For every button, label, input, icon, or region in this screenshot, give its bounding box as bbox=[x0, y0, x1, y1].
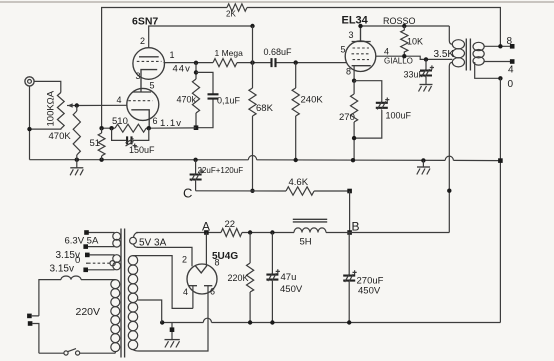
potentiometer 100K A bbox=[46, 90, 77, 129]
EL34 grids dashed bbox=[352, 48, 371, 60]
wire cathode row 1.1v bbox=[99, 126, 196, 130]
resistor 10K bbox=[401, 26, 423, 56]
svg-text:100KΩA: 100KΩA bbox=[46, 90, 57, 126]
V1b plate bar pin5 bbox=[133, 91, 151, 93]
svg-text:3.15v: 3.15v bbox=[50, 264, 74, 275]
wire HV bottom to pin6 bbox=[133, 350, 139, 351]
V1a plate bar bbox=[139, 56, 159, 58]
svg-text:0.68uF: 0.68uF bbox=[264, 47, 293, 57]
svg-text:1 Mega: 1 Mega bbox=[215, 48, 244, 58]
svg-text:2: 2 bbox=[140, 36, 145, 46]
input jack J1 bbox=[25, 77, 61, 129]
wire EL34 cathode node bbox=[352, 79, 382, 161]
op V1a triode circle bbox=[133, 48, 165, 80]
V1a grid dashed bbox=[137, 60, 162, 62]
resistor 68K bbox=[249, 88, 274, 116]
svg-text:270: 270 bbox=[339, 112, 355, 123]
svg-text:22uF+120uF: 22uF+120uF bbox=[198, 166, 244, 175]
svg-text:4: 4 bbox=[508, 65, 514, 76]
5U4G filament bbox=[195, 266, 207, 273]
EL34 plate bar pin3 bbox=[352, 26, 371, 42]
resistor 51 bbox=[90, 128, 106, 160]
svg-text:0,1uF: 0,1uF bbox=[217, 96, 241, 106]
svg-text:GIALLO: GIALLO bbox=[384, 57, 413, 66]
resistor 240K bbox=[292, 88, 323, 116]
wire bottom ground bus bbox=[160, 318, 500, 324]
svg-text:4: 4 bbox=[117, 95, 122, 105]
svg-text:51: 51 bbox=[90, 138, 101, 149]
V1a cathode bar pin3 bbox=[141, 70, 157, 92]
capacitor 150uF parallel loop bbox=[112, 128, 155, 155]
svg-text:5: 5 bbox=[341, 45, 346, 55]
wire GIALLO screen line bbox=[376, 54, 453, 66]
resistor 470k bbox=[177, 79, 200, 113]
svg-text:6.3V 5A: 6.3V 5A bbox=[65, 236, 99, 247]
transformer T1 5V winding bbox=[130, 233, 167, 249]
V1b cathode bar pin6 bbox=[131, 110, 149, 128]
op 5U4G rectifier circle bbox=[187, 264, 217, 294]
wire 5U4G pin2 to 5V winding bbox=[137, 247, 192, 266]
svg-text:470k: 470k bbox=[177, 95, 197, 105]
wire grid V1b input bbox=[75, 103, 127, 107]
resistor R-feedback 2K bbox=[226, 4, 247, 19]
capacitor 270uF 450V bbox=[343, 233, 383, 323]
svg-text:2: 2 bbox=[182, 255, 187, 265]
svg-text:68K: 68K bbox=[256, 103, 274, 114]
svg-text:ROSSO: ROSSO bbox=[383, 16, 416, 26]
svg-text:0: 0 bbox=[508, 79, 514, 90]
svg-text:8: 8 bbox=[507, 36, 513, 47]
transformer T2 core bbox=[466, 39, 470, 71]
svg-text:10K: 10K bbox=[407, 37, 423, 47]
node B riser bbox=[347, 189, 359, 235]
capacitor 0.68uF bbox=[264, 47, 293, 67]
transformer T1 HV winding bbox=[128, 256, 137, 350]
5U4G plate pin6 bbox=[139, 286, 215, 351]
svg-text:470K: 470K bbox=[49, 131, 72, 142]
wire output tap 0 bbox=[475, 62, 514, 90]
svg-text:4.6K: 4.6K bbox=[289, 177, 309, 188]
capacitor 22uF+120uF bbox=[190, 160, 244, 191]
resistor 470K input bbox=[49, 106, 81, 160]
stray junction dot on B+ riser bbox=[447, 189, 451, 193]
svg-text:C: C bbox=[183, 186, 192, 201]
svg-text:8: 8 bbox=[215, 258, 220, 268]
wire V1a plate to node bbox=[149, 24, 255, 48]
wire HV center tap bbox=[138, 300, 162, 323]
svg-text:4: 4 bbox=[384, 47, 389, 57]
transformer T1 heater 6.3V winding bbox=[65, 230, 121, 249]
5U4G plate pin4 bbox=[183, 286, 197, 309]
svg-text:1.1v: 1.1v bbox=[160, 118, 182, 129]
capacitor 0.1uF bbox=[194, 72, 241, 130]
svg-text:5: 5 bbox=[150, 81, 155, 91]
wire output tap 4 bbox=[484, 59, 514, 75]
ground symbol mid-bus bbox=[417, 160, 430, 174]
wire 240K vertical branch bbox=[295, 63, 297, 160]
svg-text:450V: 450V bbox=[358, 286, 381, 297]
wire HV top to pin4 bbox=[133, 256, 193, 309]
svg-text:5H: 5H bbox=[300, 237, 312, 248]
svg-text:47u: 47u bbox=[281, 272, 297, 283]
ground below 33uF bbox=[419, 85, 433, 92]
svg-text:1: 1 bbox=[170, 50, 175, 60]
wire mains top with fuse bbox=[39, 276, 115, 316]
resistor 220K branch bbox=[228, 233, 254, 323]
svg-text:220V: 220V bbox=[76, 306, 101, 318]
wire feedback top bus bbox=[102, 8, 501, 129]
svg-text:220K: 220K bbox=[228, 273, 249, 283]
node C wire bbox=[183, 186, 350, 201]
wire ground bus bbox=[30, 129, 503, 163]
wire right side rail bbox=[499, 78, 501, 322]
svg-text:240K: 240K bbox=[301, 95, 324, 106]
capacitor 100uF bbox=[376, 98, 412, 121]
EL34 cathode bar pin8 bbox=[352, 66, 371, 81]
svg-text:3: 3 bbox=[349, 30, 354, 40]
resistor 510 bbox=[112, 116, 146, 132]
resistor 22 bbox=[221, 219, 242, 237]
svg-text:22: 22 bbox=[225, 219, 236, 230]
plug terminals bbox=[27, 314, 39, 354]
transformer T2 secondary bbox=[473, 42, 484, 65]
transformer T1 core bbox=[121, 229, 125, 358]
resistor 1 Mega bbox=[213, 48, 243, 67]
ground symbol left bbox=[70, 160, 83, 176]
wire output tap 8 bbox=[484, 36, 514, 49]
svg-text:5V 3A: 5V 3A bbox=[139, 238, 167, 249]
transformer T2 output primary 3.5K bbox=[434, 26, 465, 233]
ground symbol center-tap bbox=[165, 323, 180, 348]
svg-text:2K: 2K bbox=[226, 10, 236, 19]
svg-text:450V: 450V bbox=[280, 284, 303, 295]
svg-text:3.5K: 3.5K bbox=[434, 49, 455, 60]
transformer T1 heater 3.15v winding bbox=[50, 250, 121, 275]
svg-text:6: 6 bbox=[210, 287, 215, 297]
svg-text:3: 3 bbox=[136, 71, 141, 81]
wire 470k/0.1uF branch stub bbox=[194, 63, 198, 128]
svg-text:150uF: 150uF bbox=[129, 145, 155, 155]
svg-text:33uF: 33uF bbox=[404, 70, 425, 80]
svg-text:100uF: 100uF bbox=[386, 111, 412, 121]
wire A row bbox=[136, 220, 349, 235]
wire B to transformer riser bbox=[350, 232, 450, 234]
wire 68K vertical branch bbox=[250, 26, 254, 193]
svg-text:44v: 44v bbox=[173, 64, 191, 75]
transformer T1 220V primary winding bbox=[76, 280, 120, 352]
svg-text:0: 0 bbox=[75, 255, 80, 266]
svg-text:6: 6 bbox=[153, 116, 158, 126]
wire signal 44v node row bbox=[164, 60, 347, 65]
resistor 4.6K bbox=[286, 177, 314, 195]
wire ROSSO plate line bbox=[358, 16, 449, 28]
inductor choke 5H bbox=[293, 219, 327, 247]
svg-text:EL34: EL34 bbox=[342, 15, 369, 27]
wire pot bottom to jack sleeve bbox=[27, 127, 61, 131]
svg-text:8: 8 bbox=[346, 67, 351, 77]
V1b grid dashed bbox=[128, 100, 152, 102]
svg-text:B: B bbox=[352, 220, 360, 234]
capacitor 33uF bbox=[404, 59, 435, 84]
svg-text:510: 510 bbox=[112, 116, 128, 127]
wire 5U4G pin8 to A bbox=[206, 233, 219, 268]
resistor 270 bbox=[339, 94, 358, 123]
scan border top bbox=[0, 1, 554, 3]
wire heater 0 center tap dashed bbox=[75, 255, 115, 266]
op EL34 pentode circle bbox=[345, 41, 376, 72]
wire mains bottom with switch bbox=[39, 349, 115, 356]
capacitor 47u 450V bbox=[266, 233, 302, 323]
op V1b triode circle bbox=[127, 88, 159, 120]
svg-text:A: A bbox=[202, 220, 210, 234]
svg-text:4: 4 bbox=[183, 287, 188, 297]
